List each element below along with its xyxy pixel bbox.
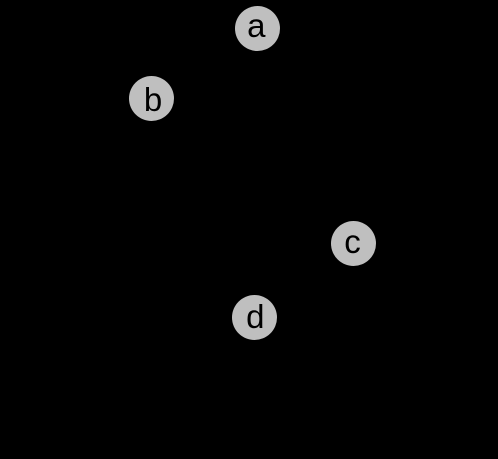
label a (247, 9, 265, 42)
label d (246, 300, 264, 333)
label c (344, 225, 361, 258)
node c (331, 221, 376, 266)
node a (235, 6, 280, 51)
node b (129, 76, 174, 121)
label b (144, 83, 162, 116)
node d (232, 295, 277, 340)
